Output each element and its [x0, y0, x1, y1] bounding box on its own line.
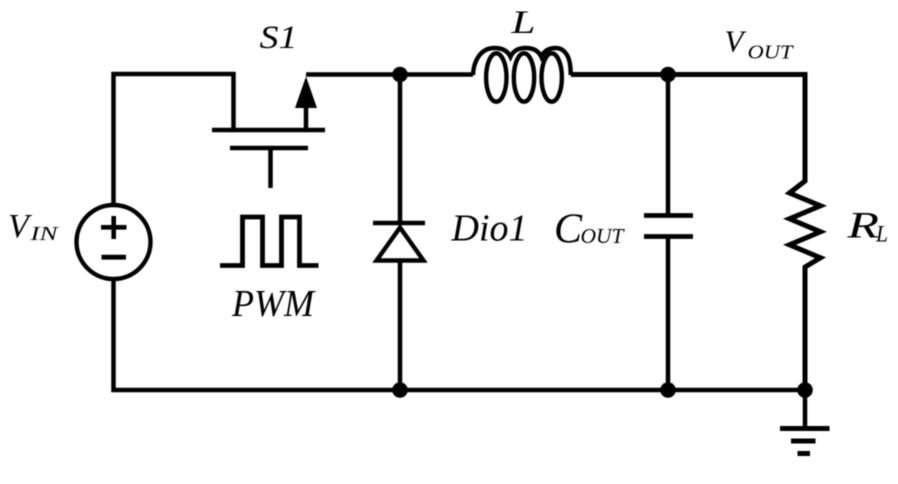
svg-text:PWM: PWM	[231, 283, 316, 325]
svg-text:V: V	[8, 208, 33, 245]
svg-text:V: V	[725, 24, 747, 59]
svg-text:OUT: OUT	[748, 42, 795, 64]
svg-text:Dio1: Dio1	[451, 208, 528, 250]
svg-text:OUT: OUT	[581, 224, 625, 248]
svg-text:L: L	[875, 222, 888, 247]
svg-text:IN: IN	[29, 223, 60, 245]
svg-text:C: C	[554, 207, 583, 253]
svg-text:S1: S1	[260, 20, 298, 56]
svg-text:L: L	[510, 5, 535, 41]
svg-text:R: R	[846, 205, 879, 246]
